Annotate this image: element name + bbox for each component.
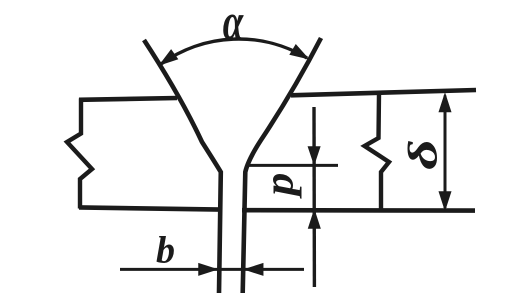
wire: plate bottom edge right segment xyxy=(242,208,475,213)
dimension line delta (plate thickness) xyxy=(444,96,447,209)
wire: right bevel edge and right root face line xyxy=(243,38,321,293)
svg-text:δ: δ xyxy=(400,139,446,169)
svg-text:b: b xyxy=(156,229,175,271)
arrowhead right end of alpha arc xyxy=(291,46,307,59)
label p (root face), rotated 90 CCW xyxy=(257,173,302,200)
svg-text:p: p xyxy=(257,173,302,200)
node: right plate break zigzag xyxy=(365,94,390,210)
dimension arc for angle alpha xyxy=(161,39,307,64)
label alpha (groove angle) xyxy=(223,0,244,51)
arrowhead b right (points left at right root line) xyxy=(246,264,263,275)
arrowhead b left (points right at left root line) xyxy=(199,264,216,275)
svg-text:α: α xyxy=(223,0,244,51)
label delta (plate thickness), rotated 90 CCW xyxy=(400,139,446,169)
wire: extension line top of root face (for p) xyxy=(247,164,338,167)
node: left plate left edge with break zigzag xyxy=(67,99,92,209)
arrowhead delta bottom (points down at bottom edge) xyxy=(440,192,451,209)
arrowhead delta top (points up at top edge) xyxy=(440,95,451,112)
wire: plate top edge right segment xyxy=(291,90,476,95)
arrowhead p bottom (points up at plate bottom edge) xyxy=(309,211,320,228)
dimension line b (root gap) xyxy=(120,268,304,271)
dimension line p (root face height) xyxy=(312,107,316,287)
wire: left bevel edge and left root face line xyxy=(144,40,221,293)
arrowhead p top (points down at extension line) xyxy=(309,147,320,164)
arrowhead left end of alpha arc xyxy=(161,51,177,64)
wire: plate top edge left segment xyxy=(79,98,177,100)
wire: plate bottom edge left segment xyxy=(79,207,221,209)
